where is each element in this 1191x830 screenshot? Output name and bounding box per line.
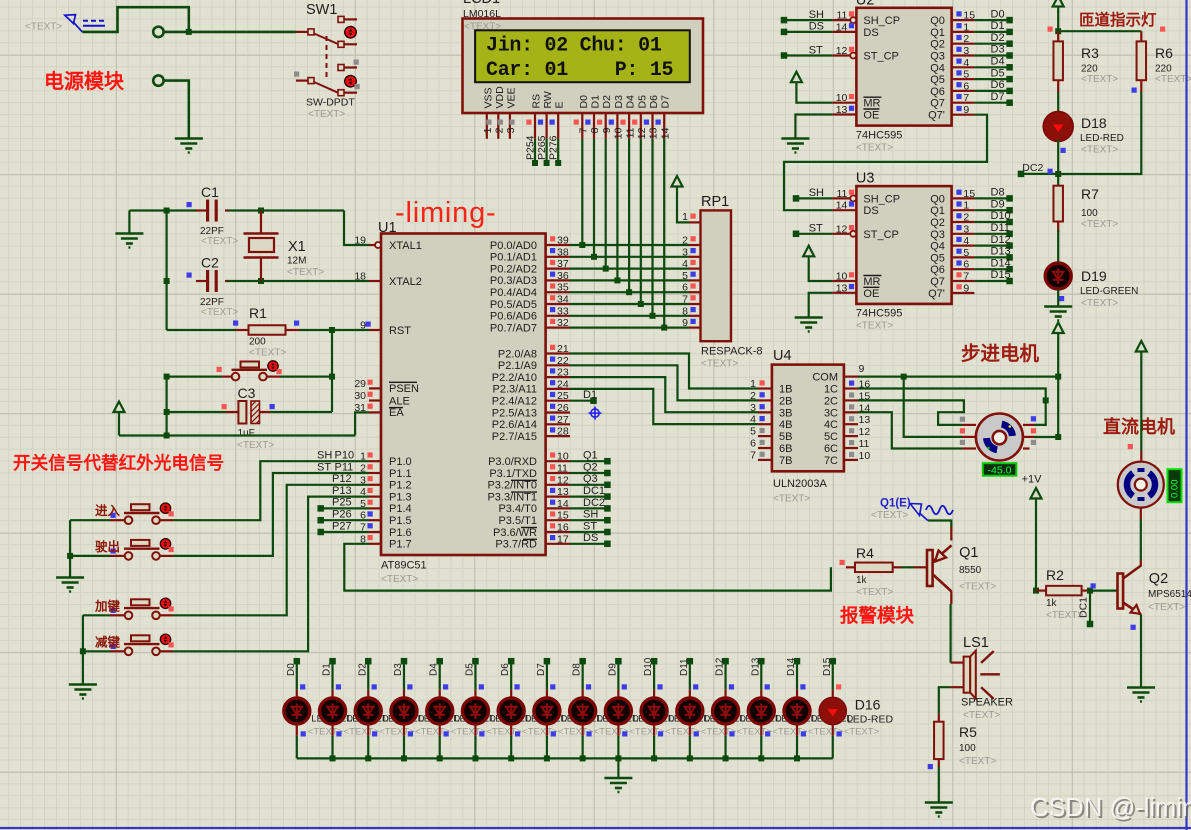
ground U2	[781, 137, 809, 140]
wire led D11 to bus	[653, 724, 655, 736]
pin 32 P0.7/AD7 U1	[546, 327, 570, 329]
wire net DC2	[1018, 171, 1025, 178]
svg-text:P0.2/AD2: P0.2/AD2	[490, 263, 537, 275]
junction DC2 row	[1055, 171, 1061, 177]
wire terminal T2 down to ground	[164, 81, 189, 138]
pin 10 P3.0/RXD U1	[546, 460, 570, 462]
svg-text:SH_CP: SH_CP	[863, 15, 900, 27]
wire OE U3 to ground	[809, 293, 833, 317]
svg-text:5C: 5C	[824, 431, 838, 443]
svg-text:LED-GREEN: LED-GREEN	[1080, 286, 1138, 297]
pin 4 Q4 U2	[952, 66, 975, 68]
svg-text:1: 1	[963, 200, 969, 212]
wire net D3 to led	[401, 658, 408, 665]
wire D6 net U2	[974, 90, 1009, 92]
wire OE U2 to ground	[795, 115, 832, 139]
svg-text:11: 11	[557, 463, 568, 475]
ground buttons 2	[69, 683, 97, 686]
wire led D5 to bus	[439, 724, 441, 736]
svg-text:27: 27	[557, 414, 569, 426]
svg-text:10: 10	[836, 92, 848, 104]
pin 37 P0.2/AD2 U1	[546, 268, 570, 270]
svg-text:LED-RED: LED-RED	[1080, 133, 1124, 144]
svg-text:6: 6	[750, 438, 756, 450]
svg-text:0.00: 0.00	[1170, 480, 1181, 499]
svg-text:Q5: Q5	[930, 252, 945, 264]
ground osc	[128, 211, 130, 234]
pin 6 Q6 U3	[952, 268, 975, 270]
svg-text:15: 15	[963, 188, 975, 200]
power arrow VCC U3	[803, 246, 814, 256]
svg-text:33: 33	[557, 305, 569, 317]
svg-text:10: 10	[859, 450, 871, 462]
svg-text:7B: 7B	[779, 455, 792, 467]
wire P3.7 net DS	[570, 543, 607, 545]
svg-text:3: 3	[682, 246, 688, 258]
svg-text:1: 1	[482, 127, 494, 133]
svg-text:ST: ST	[583, 520, 597, 532]
pin 7 Q7 U3	[952, 280, 975, 282]
svg-text:D9: D9	[607, 663, 618, 676]
lcd pin stubs	[486, 114, 488, 139]
capacitor C1	[196, 209, 207, 211]
svg-text:6: 6	[360, 510, 366, 522]
svg-text:DS: DS	[863, 27, 878, 39]
svg-text:14: 14	[836, 200, 848, 212]
vertical left rail reset	[166, 377, 168, 436]
svg-text:进入: 进入	[95, 503, 121, 518]
svg-text:MR: MR	[863, 98, 880, 110]
dc motor	[1140, 451, 1142, 462]
svg-text:Q1: Q1	[930, 27, 945, 39]
svg-text:P265: P265	[536, 135, 548, 160]
wire led D3 to bus	[367, 724, 369, 736]
svg-text:D1: D1	[590, 95, 602, 109]
svg-text:P3.4/T0: P3.4/T0	[498, 503, 537, 515]
svg-text:D2: D2	[357, 663, 368, 676]
svg-text:+1V: +1V	[1022, 474, 1043, 486]
svg-text:P12: P12	[332, 473, 352, 485]
wire ST U3	[793, 231, 800, 238]
svg-text:Q1: Q1	[959, 545, 978, 561]
svg-text:LS1: LS1	[963, 635, 989, 651]
svg-text:5: 5	[750, 426, 756, 438]
wire P1.7 to R4	[344, 544, 831, 591]
wire dc motor to Q2	[1140, 508, 1142, 519]
svg-text:P1.7: P1.7	[389, 539, 412, 551]
svg-text:VSS: VSS	[482, 87, 494, 108]
junction 驶出 left	[67, 553, 73, 559]
svg-text:1k: 1k	[856, 575, 868, 586]
pin 5 P1.4 U1	[369, 507, 381, 509]
wire R6 down to DC2 row	[1058, 92, 1141, 174]
pin 1 1B U4	[758, 387, 772, 389]
svg-text:SW-DPDT: SW-DPDT	[306, 97, 355, 109]
pin 26 P2.5/A13 U1	[546, 411, 570, 413]
svg-text:D0: D0	[578, 95, 590, 109]
svg-text:220: 220	[1155, 64, 1172, 75]
svg-text:100: 100	[959, 743, 976, 754]
wire D5 net U2	[974, 78, 1009, 80]
svg-text:2C: 2C	[824, 395, 838, 407]
pin 7 P1.6 U1	[369, 531, 381, 533]
svg-text:3: 3	[360, 474, 366, 486]
pin 9 RST U1	[369, 329, 381, 331]
svg-text:<TEXT>: <TEXT>	[844, 727, 880, 738]
svg-text:74HC595: 74HC595	[856, 129, 902, 141]
pin 9 COM U4	[844, 376, 858, 378]
pin 31 EA U1	[369, 411, 381, 413]
svg-text:<TEXT>: <TEXT>	[1081, 298, 1118, 309]
wire net D5 to led	[472, 658, 479, 665]
svg-text:9: 9	[601, 127, 613, 133]
svg-text:7: 7	[963, 271, 969, 283]
led D15 LED-RED	[784, 698, 810, 724]
pin 1 Q1 U3	[952, 209, 975, 211]
svg-text:Q4: Q4	[930, 241, 945, 253]
wire VCC to MR U2	[796, 88, 832, 103]
svg-text:D10: D10	[643, 657, 654, 676]
svg-text:4B: 4B	[779, 419, 792, 431]
pin 4 P1.3 U1	[369, 496, 381, 498]
wire P1.6 stub + net label P27	[317, 529, 324, 536]
svg-text:<TEXT>: <TEXT>	[1081, 74, 1118, 85]
wire net D1 to led	[329, 658, 336, 665]
svg-text:P1.6: P1.6	[389, 527, 412, 539]
wire 2C staircase to stepper left pin A	[858, 400, 964, 425]
wire Q2 collector up	[1140, 560, 1142, 567]
ground buttons 1	[56, 576, 84, 579]
lcd pins 1-3 numbers	[486, 120, 491, 125]
svg-text:D9: D9	[991, 198, 1005, 210]
svg-text:D4: D4	[991, 56, 1005, 68]
pin 16 1C U4	[844, 387, 858, 389]
wire D7 net U2	[974, 102, 1009, 104]
wire P3.3 net DC1	[570, 496, 607, 498]
svg-text:39: 39	[557, 235, 569, 247]
svg-text:29: 29	[354, 378, 366, 390]
wire X1 top row	[227, 209, 344, 211]
svg-text:D7: D7	[991, 91, 1005, 103]
svg-text:5: 5	[360, 498, 366, 510]
svg-text:R3: R3	[1081, 45, 1099, 61]
svg-text:P2.5/A13: P2.5/A13	[492, 407, 537, 419]
pin 13 P3.3/INT1 U1	[546, 496, 570, 498]
terminal T2	[153, 75, 163, 85]
stepper display -45.0	[983, 463, 1017, 476]
junction VCC rail	[164, 433, 170, 439]
ground R5	[925, 801, 953, 804]
wire SH U2	[781, 17, 788, 24]
pin 8 RP1	[689, 315, 701, 317]
wire R1 to RST	[299, 329, 369, 331]
svg-text:Q7: Q7	[930, 98, 945, 110]
junction C1 row	[164, 208, 170, 214]
svg-text:Q2: Q2	[930, 39, 945, 51]
pin 15 2C U4	[844, 399, 858, 401]
wire D11 net U3	[974, 233, 1009, 235]
wire P1.5 stub + net label P26	[317, 517, 324, 524]
svg-text:DC1: DC1	[1078, 597, 1090, 618]
svg-text:1C: 1C	[824, 384, 838, 396]
wire 加键 left	[83, 614, 110, 616]
terminal T1	[153, 27, 163, 37]
svg-text:Jin: 02 Chu: 01: Jin: 02 Chu: 01	[486, 35, 662, 58]
pin 2 P1.1 U1	[369, 472, 381, 474]
svg-text:<TEXT>: <TEXT>	[287, 267, 324, 278]
pin 3 P1.2 U1	[369, 484, 381, 486]
svg-text:D2: D2	[991, 32, 1005, 44]
svg-text:P2.4/A12: P2.4/A12	[492, 396, 537, 408]
ground D19	[1044, 305, 1072, 308]
svg-text:4: 4	[360, 486, 366, 498]
wire net D13 to led	[758, 658, 765, 665]
svg-text:AT89C51: AT89C51	[381, 560, 427, 572]
pin 3 3B U4	[758, 411, 772, 413]
svg-text:Q3: Q3	[930, 229, 945, 241]
wire VCC rail to EA	[119, 434, 355, 436]
svg-text:7: 7	[682, 294, 688, 306]
junction X1 top	[258, 208, 264, 214]
svg-text:<TEXT>: <TEXT>	[308, 109, 345, 120]
svg-text:12: 12	[859, 426, 871, 438]
ground Q2	[1127, 686, 1155, 689]
pin 14 DS U3	[832, 209, 856, 211]
junction DC1	[1087, 588, 1093, 594]
svg-text:P2.0/A8: P2.0/A8	[498, 348, 537, 360]
svg-text:RP1: RP1	[701, 194, 729, 210]
svg-text:11: 11	[859, 438, 870, 450]
pin 3 Q3 U3	[952, 233, 975, 235]
junction VCC stepper top	[1055, 374, 1061, 380]
svg-text:P3.5/T1: P3.5/T1	[498, 515, 537, 527]
pin 22 P2.1/A9 U1	[546, 364, 570, 366]
led D19 LED-GREEN	[1045, 263, 1071, 289]
svg-text:26: 26	[557, 402, 569, 414]
svg-text:10: 10	[557, 451, 569, 463]
svg-text:12: 12	[836, 45, 848, 57]
power arrow VCC RP1	[672, 176, 683, 187]
svg-text:7: 7	[360, 522, 366, 534]
wire COM branch to stepper left pin B	[904, 377, 962, 437]
wire SH U3	[793, 195, 800, 202]
svg-text:5: 5	[963, 69, 969, 81]
svg-text:P10: P10	[335, 450, 355, 462]
svg-text:36: 36	[557, 270, 569, 282]
pin 29 PSEN U1	[369, 387, 381, 389]
svg-text:Q7': Q7'	[928, 288, 945, 300]
svg-text:D8: D8	[991, 187, 1005, 199]
pin 15 Q0 U3	[952, 197, 975, 199]
svg-text:OE: OE	[863, 110, 879, 122]
pin 6 P1.5 U1	[369, 519, 381, 521]
led D16 LED-RED	[819, 697, 846, 724]
svg-text:DS: DS	[809, 21, 824, 33]
ground U3	[795, 316, 823, 319]
svg-text:D5: D5	[636, 95, 648, 109]
svg-text:13: 13	[557, 486, 569, 498]
wire R5 to ground	[938, 767, 940, 802]
stepper motor	[962, 424, 976, 426]
ground led bus	[604, 777, 632, 780]
svg-text:D16: D16	[855, 697, 881, 713]
svg-text:D11: D11	[679, 658, 690, 676]
svg-text:32: 32	[557, 317, 569, 329]
svg-text:P2.7/A15: P2.7/A15	[492, 431, 537, 443]
junction VCC stepper bottom	[1055, 434, 1061, 440]
wire D10 net U3	[974, 221, 1009, 223]
svg-text:ULN2003A: ULN2003A	[773, 478, 827, 490]
svg-text:直流电机: 直流电机	[1103, 416, 1175, 437]
pin 38 P0.1/AD1 U1	[546, 256, 570, 258]
wire led D9 to bus	[582, 724, 584, 736]
svg-text:4: 4	[963, 235, 969, 247]
svg-text:XTAL1: XTAL1	[389, 240, 422, 252]
svg-text:<TEXT>: <TEXT>	[773, 494, 810, 505]
svg-text:D19: D19	[1081, 268, 1107, 284]
svg-text:LCD1: LCD1	[463, 0, 500, 7]
svg-text:28: 28	[557, 426, 569, 438]
pin 7 Q7 U2	[952, 102, 975, 104]
power arrow VCC stepper	[1053, 323, 1064, 334]
mcu U1 AT89C51 body	[381, 234, 546, 556]
svg-text:D14: D14	[786, 657, 797, 676]
wire led D13 to bus	[724, 724, 726, 736]
pin 2 Q2 U3	[952, 221, 975, 223]
svg-text:17: 17	[557, 533, 569, 545]
wire 减键 left	[83, 650, 110, 652]
svg-text:10: 10	[613, 127, 625, 139]
led D8 LED-RED	[534, 698, 560, 724]
pin 13 4C U4	[844, 423, 858, 425]
wire D9 net U3	[974, 209, 1009, 211]
svg-text:4: 4	[682, 258, 688, 270]
pin 4 Q4 U3	[952, 245, 975, 247]
svg-text:<TEXT>: <TEXT>	[856, 142, 893, 153]
svg-text:Q1: Q1	[930, 205, 945, 217]
wire led D1 to bus	[296, 724, 298, 736]
svg-text:7: 7	[963, 92, 969, 104]
svg-text:Q2: Q2	[1149, 571, 1168, 587]
svg-text:18: 18	[354, 271, 366, 283]
svg-text:U4: U4	[773, 348, 792, 364]
wire net D11 to led	[687, 658, 694, 665]
svg-text:P1.3: P1.3	[389, 491, 412, 503]
svg-text:<TEXT>: <TEXT>	[201, 307, 238, 318]
svg-text:1k: 1k	[1046, 598, 1058, 609]
svg-text:P2.6/A14: P2.6/A14	[492, 419, 537, 431]
svg-text:1uF: 1uF	[238, 428, 255, 439]
wire net D14 to led	[794, 658, 801, 665]
wire VCC stepper rail	[1057, 338, 1059, 437]
wire R7 to D19	[1057, 230, 1059, 262]
junction indicator	[1055, 28, 1061, 34]
pin 14 P3.4/T0 U1	[546, 507, 570, 509]
svg-text:9: 9	[360, 320, 366, 332]
svg-text:D4: D4	[429, 663, 440, 676]
wire DS U2	[781, 29, 788, 36]
svg-text:C2: C2	[201, 255, 219, 271]
wire D1 net U2	[974, 31, 1009, 33]
svg-text:5B: 5B	[779, 431, 792, 443]
svg-text:15: 15	[557, 510, 569, 522]
wires lcd data to P0 bus	[581, 139, 583, 245]
wire VCC to dc motor	[1140, 357, 1142, 451]
svg-text:<TEXT>: <TEXT>	[959, 756, 996, 767]
wire net D6 to led	[508, 658, 515, 665]
wire net D8 to led	[579, 658, 586, 665]
wire Q2 emitter to ground	[1140, 615, 1142, 688]
svg-text:RW: RW	[542, 91, 554, 108]
svg-text:DS: DS	[863, 205, 878, 217]
wire probe to junction	[82, 7, 189, 32]
svg-text:100: 100	[1081, 208, 1098, 219]
pin 6 6B U4	[758, 447, 772, 449]
svg-text:D1: D1	[991, 20, 1005, 32]
svg-text:21: 21	[557, 343, 569, 355]
svg-text:D12: D12	[991, 234, 1011, 246]
svg-text:4: 4	[963, 57, 969, 69]
wire led D8 to bus	[546, 724, 548, 736]
wire P2.1 to U4 2B	[570, 365, 758, 400]
resistor R5	[938, 714, 940, 722]
voltage probe (battery symbol)	[65, 15, 76, 24]
svg-text:3C: 3C	[824, 407, 838, 419]
pin 17 P3.7/RD U1	[546, 543, 570, 545]
svg-text:9: 9	[682, 317, 688, 329]
svg-text:14: 14	[836, 21, 848, 33]
resistor R1	[167, 329, 236, 331]
svg-text:DC1: DC1	[583, 485, 605, 497]
svg-text:XTAL2: XTAL2	[389, 276, 422, 288]
wire C1 row	[129, 209, 197, 211]
pin 18 XTAL2 U1	[369, 280, 381, 282]
pin 19 XTAL1 U1	[369, 244, 381, 246]
wire stepper right pin B	[1034, 436, 1058, 438]
svg-text:37: 37	[557, 258, 569, 270]
pin 5 Q5 U2	[952, 78, 975, 80]
svg-text:220: 220	[1081, 64, 1098, 75]
svg-text:14: 14	[659, 127, 671, 139]
svg-text:13: 13	[859, 414, 871, 426]
wire D19 to ground	[1057, 290, 1059, 306]
vertical RST to button	[331, 330, 333, 412]
svg-text:D11: D11	[991, 222, 1010, 234]
pin 1 P1.0 U1	[369, 460, 381, 462]
capacitor C2	[196, 280, 207, 282]
svg-text:Q7': Q7'	[928, 110, 945, 122]
crystal X1	[260, 211, 262, 234]
svg-text:35: 35	[557, 282, 569, 294]
svg-text:D5: D5	[464, 663, 475, 676]
svg-text:Q6: Q6	[930, 86, 945, 98]
wire Q1 collector to speaker	[950, 592, 952, 605]
svg-text:Car: 01 P: 15: Car: 01 P: 15	[486, 59, 673, 82]
wires P0 rows to RP1	[570, 244, 689, 246]
svg-text:1: 1	[750, 378, 756, 390]
wire 进入 left	[70, 519, 110, 521]
svg-text:2: 2	[682, 235, 688, 247]
power arrow VCC indicator	[1053, 0, 1064, 7]
pin 36 P0.3/AD3 U1	[546, 279, 570, 281]
led bus wire	[297, 757, 833, 759]
svg-text:3: 3	[505, 127, 517, 133]
svg-text:10: 10	[836, 271, 848, 283]
svg-text:9: 9	[859, 363, 865, 375]
svg-text:P0.4/AD4: P0.4/AD4	[490, 287, 537, 299]
pin 1 RP1	[689, 221, 701, 223]
wire P3.1 net Q2	[570, 472, 607, 474]
